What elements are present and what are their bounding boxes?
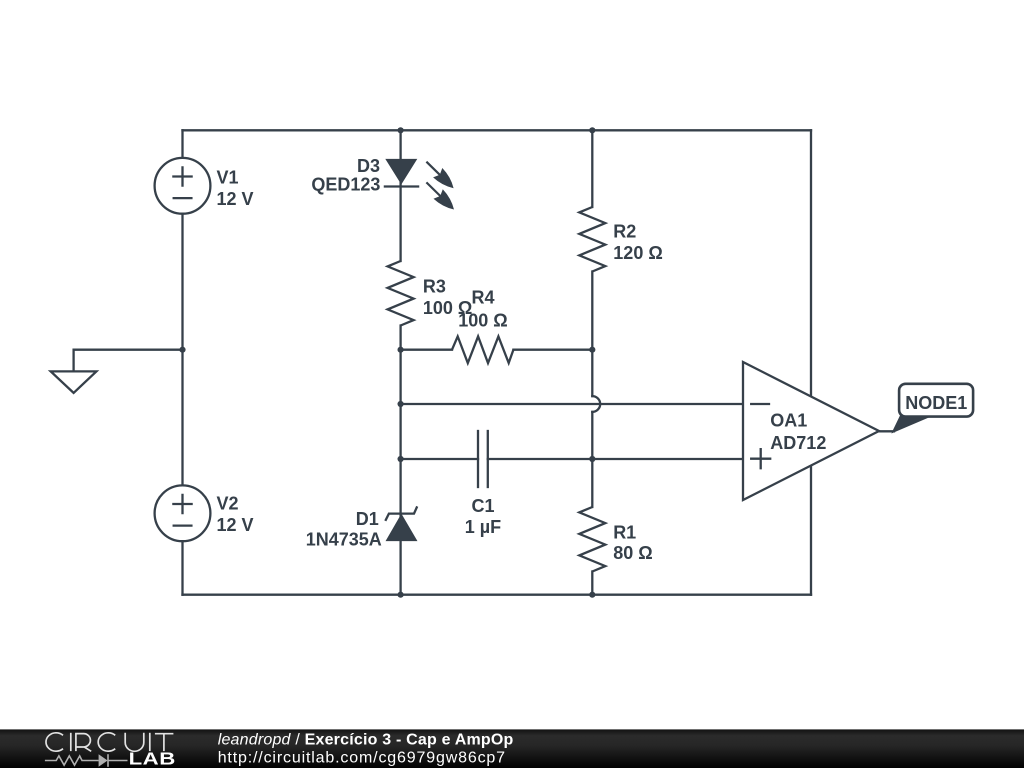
svg-text:D3: D3 <box>357 156 380 176</box>
node inverting row tap <box>398 401 404 407</box>
resistor R2 zigzag <box>579 207 605 272</box>
resistor R1 zigzag <box>579 507 605 572</box>
wire R2 rail between R2 and hop <box>591 272 593 397</box>
svg-text:leandropd / Exercício 3 - Cap: leandropd / Exercício 3 - Cap e AmpOp <box>218 731 514 748</box>
svg-text:1 µF: 1 µF <box>465 517 501 537</box>
V1 minus sign <box>174 197 192 199</box>
svg-text:100 Ω: 100 Ω <box>458 310 507 330</box>
svg-text:R4: R4 <box>471 287 494 307</box>
ground symbol <box>51 371 97 393</box>
LED D3 triangle <box>386 159 416 183</box>
logo resistor-diode symbol <box>45 754 128 767</box>
footer black bar <box>0 729 1024 768</box>
svg-text:120 Ω: 120 Ω <box>613 243 662 263</box>
capacitor C1 left plate <box>477 431 479 487</box>
logo CIRCUIT lettering <box>46 733 173 752</box>
LED D3 cathode bar <box>385 185 418 187</box>
svg-text:OA1: OA1 <box>770 411 807 431</box>
svg-text:QED123: QED123 <box>311 174 380 194</box>
wire R4 row from middle rail <box>401 349 452 351</box>
svg-text:R3: R3 <box>423 276 446 296</box>
svg-text:AD712: AD712 <box>770 433 826 453</box>
wire R2 rail top lead <box>591 130 593 207</box>
wire left rail through V1 and V2 <box>181 130 183 594</box>
node R4/R2 junction <box>589 347 595 353</box>
wire op-amp inverting input row <box>401 403 743 405</box>
LED D3 light arrow 2 <box>426 182 440 196</box>
wire middle rail upper (through D3) <box>399 130 401 261</box>
wire right rail (top corner to bottom corner) <box>810 130 812 594</box>
wire R1 bottom lead <box>591 572 593 595</box>
svg-text:R2: R2 <box>613 222 636 242</box>
svg-text:R1: R1 <box>613 523 636 543</box>
op-amp plus input mark <box>751 449 770 468</box>
zener D1 cathode bar with bent ends <box>385 506 417 521</box>
svg-text:V2: V2 <box>217 494 239 514</box>
wire op-amp non-inverting row left of C1 <box>401 458 478 460</box>
svg-text:1N4735A: 1N4735A <box>306 530 382 550</box>
NODE1 flag pointer wedge <box>893 416 932 433</box>
node D1 bottom junction <box>398 592 404 598</box>
resistor R3 zigzag <box>388 261 414 326</box>
svg-text:http://circuitlab.com/cg6979gw: http://circuitlab.com/cg6979gw86cp7 <box>218 750 506 767</box>
op-amp output stub wire <box>879 430 894 432</box>
node C1 row tap <box>398 456 404 462</box>
node R2-rail/plus-row junction <box>589 456 595 462</box>
node R3/R4 junction <box>398 347 404 353</box>
wire bottom rail <box>183 594 812 596</box>
wire ground branch <box>74 350 183 372</box>
node R1 bottom junction <box>589 592 595 598</box>
svg-text:LAB: LAB <box>129 749 176 768</box>
op-amp minus input mark <box>751 403 769 405</box>
svg-text:12 V: 12 V <box>217 189 254 209</box>
zener diode D1 triangle <box>386 515 416 541</box>
LED D3 light arrow 1 <box>426 162 440 176</box>
svg-text:NODE1: NODE1 <box>905 393 967 413</box>
node top-R2 junction <box>589 127 595 133</box>
wire middle rail lower (through D1) <box>399 326 401 595</box>
NODE1 flag box <box>899 384 973 417</box>
V1 plus sign <box>173 167 191 185</box>
svg-text:12 V: 12 V <box>217 515 254 535</box>
V2 plus sign <box>173 495 191 513</box>
voltage source V1 circle <box>155 158 211 214</box>
node ground junction <box>179 347 185 353</box>
V2 minus sign <box>174 524 192 526</box>
wire R4 row to R2 rail <box>513 349 592 351</box>
wire hop over inverting row <box>592 396 600 412</box>
wire top rail V1-to-right <box>183 129 812 131</box>
wire R2 rail between hop and R1 <box>591 412 593 507</box>
node top-mid junction <box>398 127 404 133</box>
op-amp OA1 triangle <box>743 362 879 500</box>
svg-text:D1: D1 <box>356 509 379 529</box>
voltage source V2 circle <box>155 485 211 541</box>
resistor R4 zigzag <box>452 336 513 363</box>
svg-text:C1: C1 <box>471 496 494 516</box>
svg-text:80 Ω: 80 Ω <box>613 543 652 563</box>
svg-text:V1: V1 <box>217 167 239 187</box>
capacitor C1 right plate <box>487 431 489 487</box>
wire op-amp non-inverting row right of C1 <box>488 458 743 460</box>
